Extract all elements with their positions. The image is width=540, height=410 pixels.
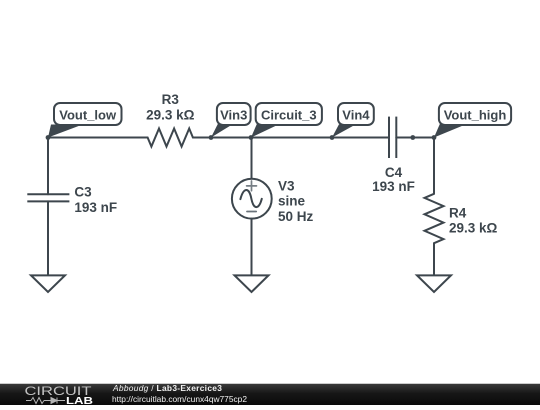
svg-text:LAB: LAB [66, 396, 93, 405]
svg-text:29.3 kΩ: 29.3 kΩ [449, 221, 498, 236]
svg-text:R4: R4 [449, 206, 467, 221]
CircuitLab logo [24, 384, 94, 405]
ground (left) [31, 275, 65, 292]
svg-text:C3: C3 [74, 185, 92, 200]
wire: Vout_high corner down to R4 top [433, 138, 435, 194]
junction node Vout_low [46, 135, 51, 140]
ground (right) [417, 275, 451, 292]
wire: C3 bottom plate down to left ground [47, 201, 49, 275]
svg-text:193 nF: 193 nF [372, 179, 415, 194]
wire: C4 right plate to Vout_high corner [396, 137, 434, 139]
capacitor C3 [27, 193, 69, 195]
voltage source V3 [232, 179, 272, 219]
footer attribution text [113, 384, 247, 404]
junction node at C4 right terminal [410, 135, 415, 140]
svg-text:Vin4: Vin4 [342, 108, 370, 123]
svg-text:V3: V3 [278, 179, 295, 194]
junction node Vin3 [209, 135, 214, 140]
net flag Vout_low [48, 103, 122, 138]
wire: R3 right terminal to C4 left plate [193, 137, 389, 139]
footer bar [0, 383, 540, 405]
resistor R3 [148, 129, 193, 147]
net flag Circuit_3 [251, 103, 322, 138]
wire: Vout_low node to R3 left terminal [48, 137, 148, 139]
junction node Vout_high [432, 135, 437, 140]
svg-text:Vout_low: Vout_low [59, 108, 117, 123]
ground (middle) [235, 275, 269, 292]
wire: middle branch, Circuit_3 node down to V3 top [251, 138, 253, 179]
capacitor C4 [388, 117, 390, 158]
svg-text:193 nF: 193 nF [74, 200, 117, 215]
junction node Vin4 [330, 135, 335, 140]
svg-text:Circuit_3: Circuit_3 [261, 108, 317, 123]
net flag Vin3 [211, 103, 251, 138]
svg-text:50 Hz: 50 Hz [278, 209, 314, 224]
svg-text:R3: R3 [162, 92, 180, 107]
net flag Vin4 [332, 103, 374, 138]
wire: left branch, node down to C3 top plate [47, 138, 49, 195]
wire: R4 bottom to right ground [433, 243, 435, 275]
net flag Vout_high [434, 103, 511, 138]
junction node Circuit_3 [249, 135, 254, 140]
svg-text:Vout_high: Vout_high [444, 108, 507, 123]
resistor R4 [425, 194, 444, 243]
svg-text:C4: C4 [385, 165, 403, 180]
svg-text:29.3 kΩ: 29.3 kΩ [146, 108, 195, 123]
svg-text:sine: sine [278, 194, 306, 209]
svg-text:Vin3: Vin3 [220, 108, 247, 123]
wire: V3 bottom to middle ground [251, 219, 253, 276]
